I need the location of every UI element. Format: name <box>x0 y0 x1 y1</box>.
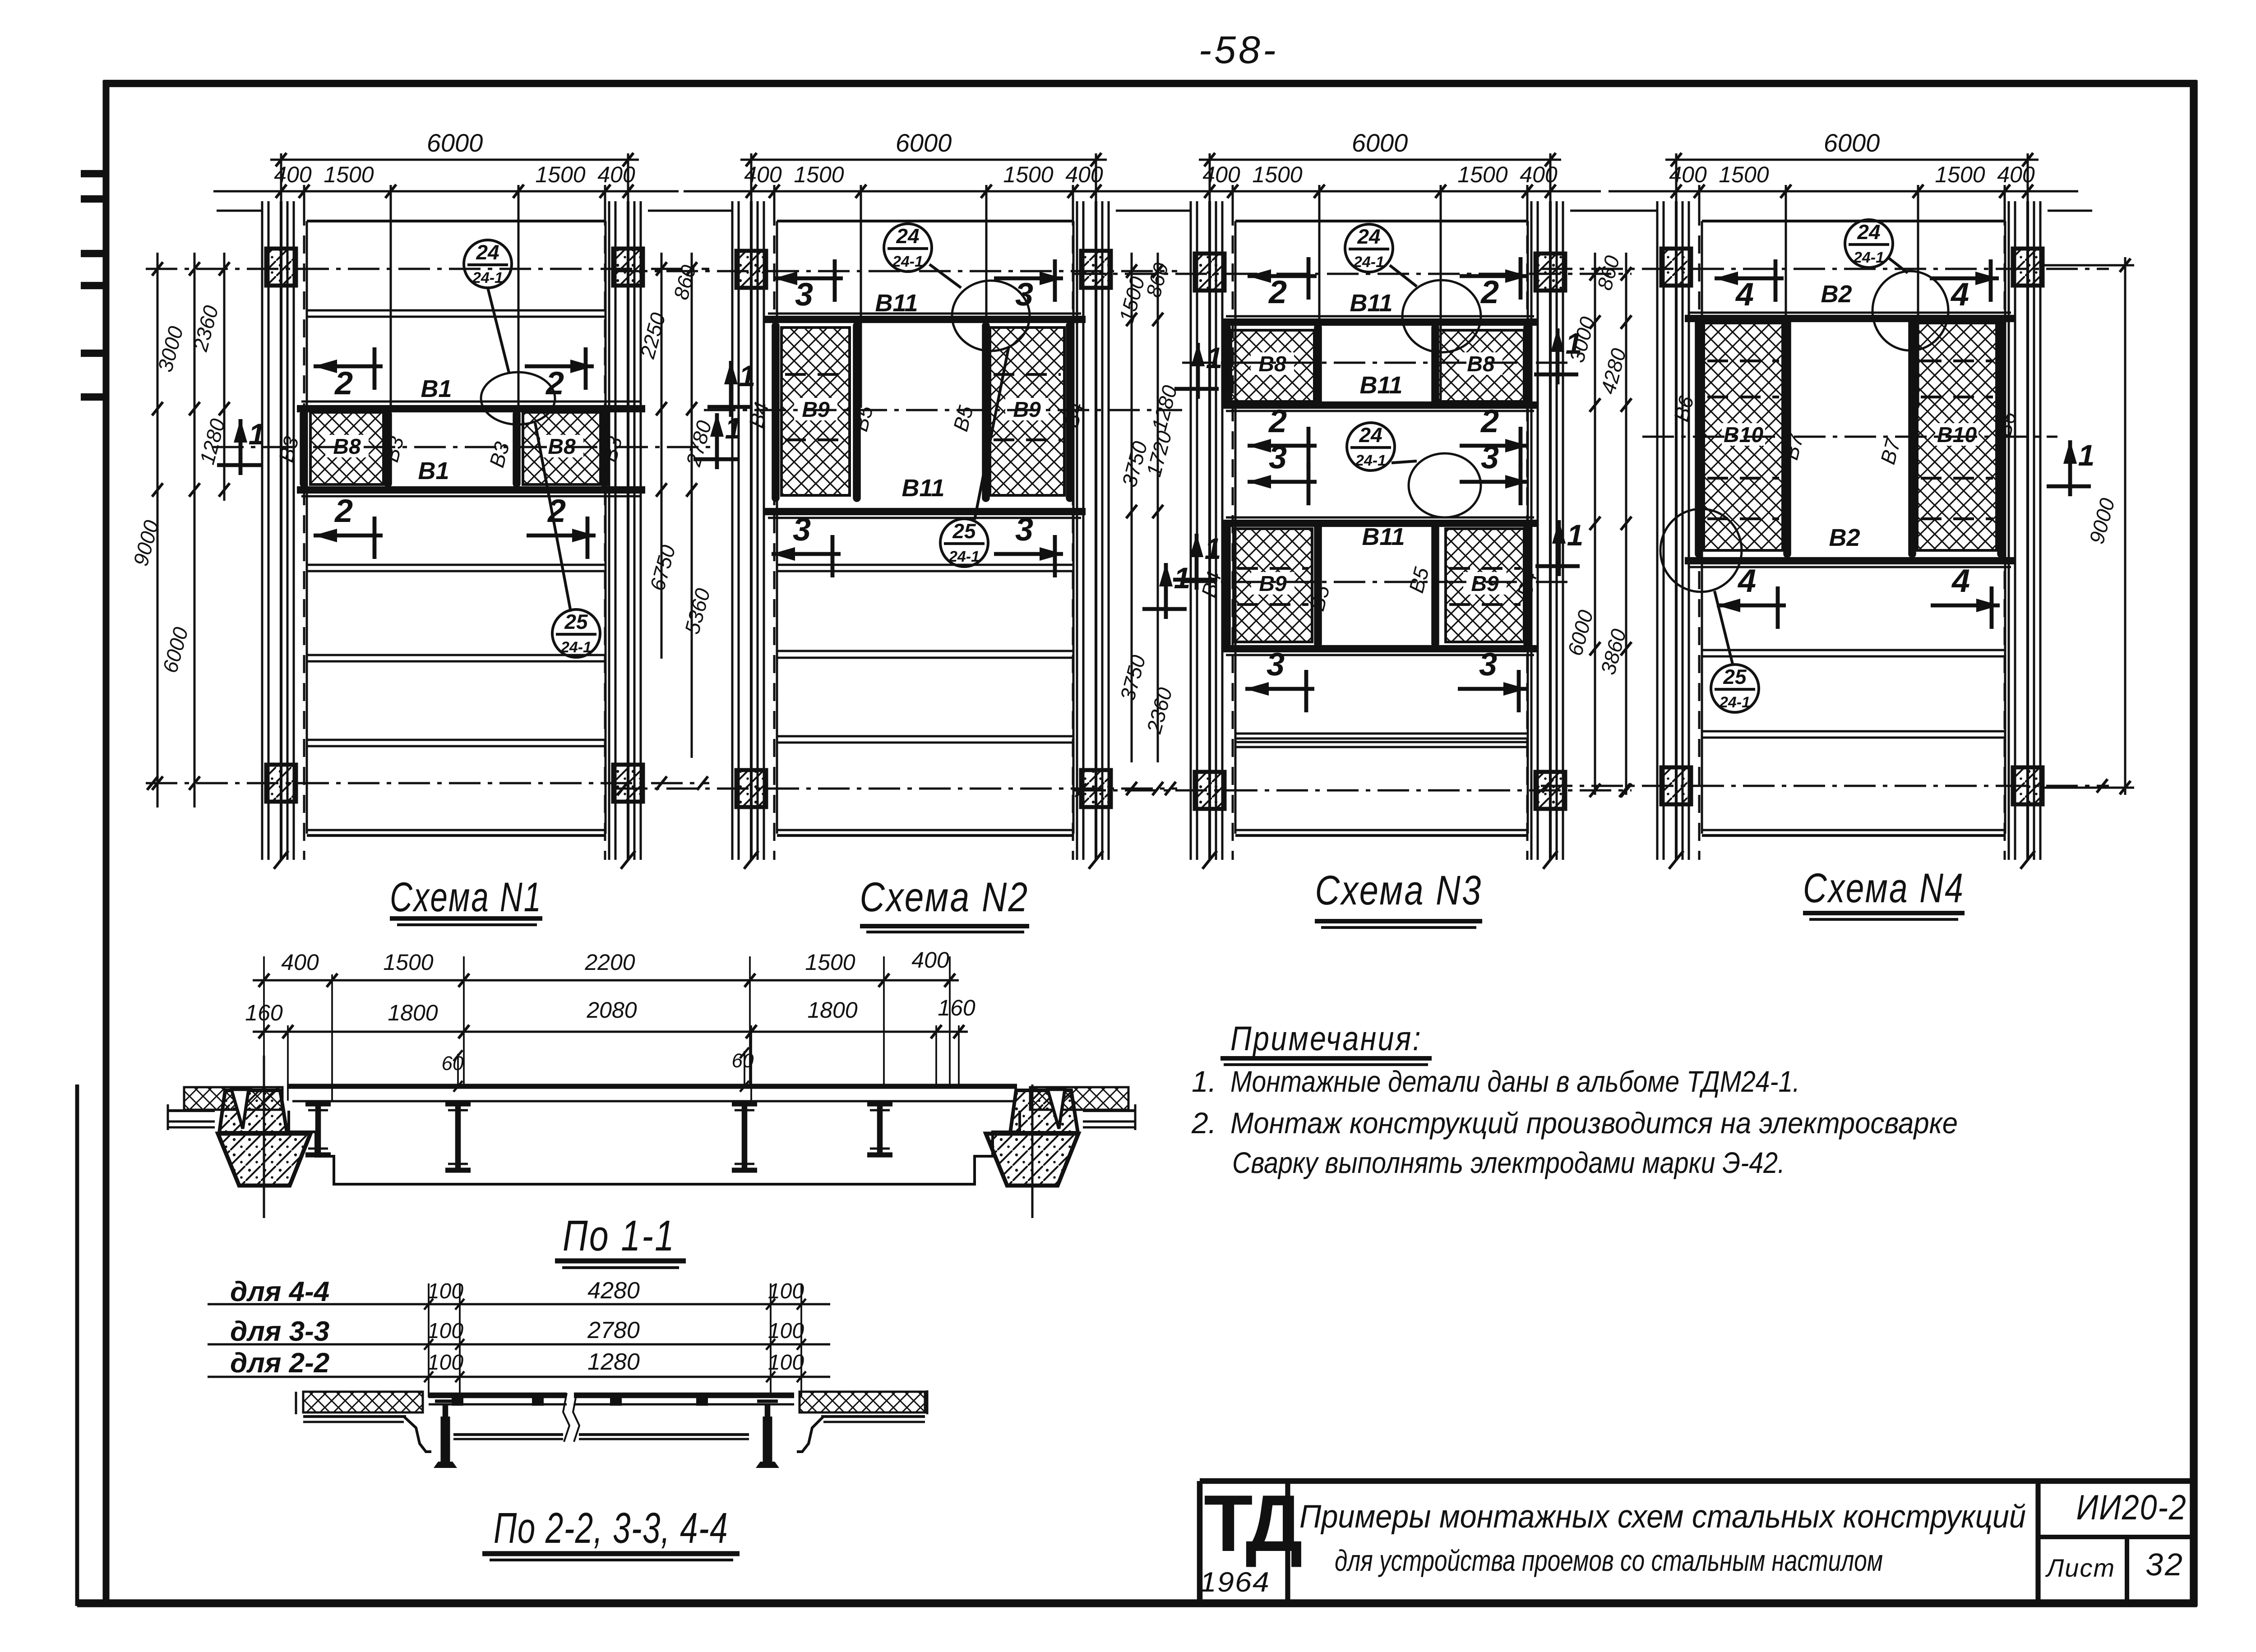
scheme N3: rail end ticks <box>1202 851 1217 869</box>
svg-text:400: 400 <box>1202 162 1240 187</box>
svg-text:B2: B2 <box>1829 524 1860 551</box>
svg-text:6000: 6000 <box>896 129 952 157</box>
scheme N1: bottom axis line <box>146 782 709 784</box>
svg-text:100: 100 <box>768 1351 804 1375</box>
scheme N1: edge beam bar <box>300 414 308 484</box>
svg-text:1500: 1500 <box>324 162 374 187</box>
svg-text:B11: B11 <box>901 475 944 502</box>
scheme N4: edge beam bar <box>1695 321 1703 554</box>
svg-text:для 3-3: для 3-3 <box>230 1316 329 1347</box>
svg-text:1: 1 <box>1206 341 1223 374</box>
svg-text:B11: B11 <box>1350 290 1392 317</box>
svg-text:1: 1 <box>1567 518 1584 552</box>
scheme N2: dimension extension lines <box>750 160 753 212</box>
section 2-2: left slab with insulation <box>303 1392 423 1412</box>
scheme N1: overall dimension line 6000 <box>270 159 639 161</box>
svg-text:1: 1 <box>739 359 756 392</box>
svg-text:1.: 1. <box>1192 1065 1216 1098</box>
svg-text:B11: B11 <box>1362 523 1405 550</box>
scheme N1: section mark 2 <box>527 534 596 538</box>
svg-text:400: 400 <box>744 162 782 187</box>
section 1-1: right wall axis line <box>1031 1084 1034 1218</box>
scheme N1: section mark 2 <box>314 534 383 538</box>
svg-text:для 2-2: для 2-2 <box>230 1347 329 1379</box>
scheme N3: sub dimension line 400-1500-1500-400 <box>1142 190 1601 193</box>
section 1-1: left anchor V <box>231 1089 249 1129</box>
scheme N3: left rail beams <box>1190 201 1192 860</box>
svg-text:4280: 4280 <box>587 1278 640 1304</box>
svg-text:B1: B1 <box>421 375 452 402</box>
svg-text:1500: 1500 <box>383 950 433 975</box>
scheme N1: section mark 2 <box>525 365 594 369</box>
scheme N2: edge beam bar <box>982 326 990 498</box>
scheme N3: infill panel B9 <box>1446 529 1524 642</box>
svg-text:25: 25 <box>952 519 976 543</box>
svg-text:3: 3 <box>1267 646 1285 683</box>
section 1-1: I-beam at 705 <box>305 1101 331 1106</box>
scheme N2: section mark 3 <box>994 277 1063 281</box>
scheme N4: section mark 1 <box>2068 440 2072 496</box>
scheme N3: infill panel B9 <box>1234 529 1312 642</box>
scheme N2: bottom axis line <box>616 788 1177 790</box>
scheme N1: rail end ticks <box>274 851 288 869</box>
svg-text:По 2-2, 3-3, 4-4: По 2-2, 3-3, 4-4 <box>494 1504 728 1552</box>
svg-text:По 1-1: По 1-1 <box>563 1212 675 1260</box>
scheme N3: slab bottom edge <box>1235 829 1528 831</box>
svg-text:ТД: ТД <box>1204 1478 1301 1568</box>
svg-text:B2: B2 <box>1821 281 1852 308</box>
svg-text:1: 1 <box>1205 532 1221 565</box>
scheme N4: sub dimension line 400-1500-1500-400 <box>1609 190 2078 193</box>
scheme N3: steel beam B11 <box>1221 520 1539 527</box>
scheme N4: bottom axis line <box>1541 785 2109 787</box>
svg-text:B1: B1 <box>418 457 449 485</box>
scheme N4: infill panel B10 <box>1917 323 1997 550</box>
svg-text:400: 400 <box>1065 162 1103 187</box>
svg-text:6000: 6000 <box>1824 129 1880 157</box>
svg-text:3: 3 <box>1269 439 1287 475</box>
section 2-2: right slab with insulation <box>800 1392 925 1412</box>
scheme N3: dimension extension lines <box>1209 160 1211 212</box>
svg-text:3: 3 <box>1015 277 1033 313</box>
scheme N3: section mark 1 <box>1557 520 1561 576</box>
scheme N4: bottom column blocks <box>1661 767 1691 804</box>
svg-text:2.: 2. <box>1191 1106 1216 1140</box>
scheme N3: edge beam bar <box>1314 526 1322 644</box>
scheme N4: rail end ticks <box>1669 851 1683 869</box>
scheme N2: infill panel B9 <box>781 328 850 495</box>
svg-text:1: 1 <box>249 417 265 451</box>
scheme N2: sub dimension line 400-1500-1500-400 <box>684 190 1146 193</box>
scheme N4: top axis line <box>1541 268 2109 270</box>
section 2-2: left slab soffit and bent edge <box>303 1415 406 1418</box>
scheme N2: detail flag 24/24-1 <box>884 224 932 272</box>
svg-text:Схема N2: Схема N2 <box>860 874 1029 920</box>
svg-text:24: 24 <box>1357 225 1380 248</box>
scheme N1: right rail beams <box>608 201 610 860</box>
svg-text:1500: 1500 <box>1457 162 1507 187</box>
svg-text:Примеры монтажных схем стальны: Примеры монтажных схем стальных конструк… <box>1299 1499 2026 1535</box>
svg-text:1500: 1500 <box>535 162 585 187</box>
scheme N1: sub dimension line 400-1500-1500-400 <box>213 190 679 193</box>
svg-text:-58-: -58- <box>1199 28 1279 72</box>
svg-text:B10: B10 <box>1724 423 1763 447</box>
svg-text:Лист: Лист <box>2045 1554 2115 1582</box>
scheme N4: section mark 4 <box>1931 604 2000 608</box>
svg-text:2: 2 <box>1480 274 1499 310</box>
svg-text:24: 24 <box>476 240 499 264</box>
section 2-2: suspended I-beams <box>443 1404 448 1462</box>
scheme N1: left rail beams <box>261 201 264 860</box>
scheme N4: section mark 4 <box>1930 277 1999 281</box>
scheme N2: slab strip joints <box>777 564 1073 566</box>
section 2-2: right slab soffit and bent edge <box>821 1415 925 1418</box>
scan edge line left <box>75 1084 79 1606</box>
scheme N1: left dimension lines <box>157 253 159 808</box>
svg-text:400: 400 <box>1997 162 2035 187</box>
scheme N2: bottom column blocks <box>736 770 766 807</box>
scheme N1: detail flag 24/24-1 <box>464 240 512 288</box>
scheme N3: edge beam bar <box>1223 328 1231 403</box>
scheme N2: top axis line <box>616 270 1177 272</box>
scheme N2: right dimension lines <box>1131 253 1133 762</box>
svg-text:1500: 1500 <box>1003 162 1053 187</box>
svg-text:400: 400 <box>597 162 635 187</box>
scheme N4: opening axis line <box>1642 436 2057 438</box>
scheme N3: infill panel B8 <box>1438 330 1524 401</box>
scheme N3: detail flag 24/24-1 upper <box>1345 224 1393 272</box>
svg-text:1500: 1500 <box>805 950 855 975</box>
scheme N4: top column blocks <box>1661 249 1691 286</box>
svg-text:для устройства проемов со стал: для устройства проемов со стальным насти… <box>1335 1544 1883 1577</box>
scheme N1: leader to detail region <box>488 288 509 373</box>
scheme N1: dimension extension lines <box>280 160 282 212</box>
svg-text:1800: 1800 <box>388 1000 438 1025</box>
section 1-1: right concrete footing <box>986 1134 1078 1186</box>
scheme N1: top axis line <box>146 268 709 270</box>
svg-text:B8: B8 <box>1467 352 1495 376</box>
scheme N2: overall dimension line 6000 <box>740 159 1107 161</box>
section 1-1: steel deck plate <box>287 1084 1017 1089</box>
scheme N3: section mark 2 <box>1460 274 1529 278</box>
scheme N2: edge beam bar <box>772 326 780 498</box>
scheme N1: edge beam bar <box>601 414 609 484</box>
scheme N2: infill panel B9 <box>990 328 1064 495</box>
scheme N4: slab bottom edge <box>1702 829 2005 831</box>
section 2-2: deck clips <box>452 1398 463 1406</box>
scheme N4: edge beam bar <box>1908 321 1916 554</box>
svg-text:24-1: 24-1 <box>1719 694 1750 711</box>
scheme N3: section mark 2 <box>1248 274 1317 278</box>
scheme N1: top column blocks <box>266 249 296 286</box>
svg-text:Примечания:: Примечания: <box>1230 1020 1422 1058</box>
scheme N1: steel beam B1 <box>297 405 645 412</box>
binding tick marks <box>81 170 104 177</box>
scheme N2: steel beam B11 <box>763 508 1086 515</box>
sheet border frame <box>103 80 110 1606</box>
section 1-1: right floor slab with insulation <box>1030 1087 1128 1110</box>
svg-text:Схема N4: Схема N4 <box>1803 865 1965 911</box>
svg-text:4: 4 <box>1950 277 1969 313</box>
svg-text:400: 400 <box>1669 162 1707 187</box>
dimension labels between N3 and N4 <box>1594 253 1596 795</box>
scheme N1: edge beam bar <box>384 414 392 484</box>
scheme N3: steel beam B11 <box>1221 318 1539 326</box>
section 1-1: I-beam at 1650 <box>732 1101 757 1106</box>
scheme N1: infill panel B8 <box>310 412 384 485</box>
svg-text:2780: 2780 <box>587 1317 640 1343</box>
scheme N3: infill panel B8 <box>1231 330 1314 401</box>
scheme N3: section mark 3 <box>1458 687 1527 691</box>
scheme N1: steel beam B1 <box>297 486 645 494</box>
scheme N3: section mark 3 <box>1460 480 1529 484</box>
scheme N4: steel beam B2 <box>1685 315 2016 322</box>
svg-text:4: 4 <box>1737 563 1756 599</box>
svg-text:B11: B11 <box>1359 372 1402 399</box>
svg-text:1500: 1500 <box>1935 162 1985 187</box>
scheme N2: rail end ticks <box>744 851 758 869</box>
svg-text:Схема N3: Схема N3 <box>1315 868 1483 914</box>
scheme N1: section mark 1 <box>715 413 719 469</box>
svg-text:1800: 1800 <box>807 997 857 1023</box>
svg-text:24-1: 24-1 <box>892 253 923 270</box>
scheme N3: bottom column blocks <box>1195 772 1225 809</box>
svg-text:Схема N1: Схема N1 <box>390 874 542 920</box>
scheme N3: edge beam bar <box>1431 328 1439 403</box>
svg-text:2: 2 <box>1268 403 1287 439</box>
scheme N4: section mark 4 <box>1715 277 1784 281</box>
svg-text:2: 2 <box>334 493 353 529</box>
scheme N2: section mark 3 <box>774 277 843 281</box>
section 2-2: soffit lines with break <box>453 1433 563 1436</box>
scheme N1: section mark 2 <box>314 365 383 369</box>
section 1-1: I-beam at 1950 <box>867 1101 892 1106</box>
section 1-1: dimension row 160-1800-2080-1800-160 <box>253 1031 968 1033</box>
scheme N3: edge beam bar <box>1314 328 1322 403</box>
svg-text:Монтажные детали даны в альбом: Монтажные детали даны в альбоме ТДМ24-1. <box>1230 1065 1800 1098</box>
section 1-1: dimension extension lines <box>263 956 265 1087</box>
svg-text:2: 2 <box>1268 274 1287 310</box>
svg-text:B9: B9 <box>1471 572 1499 596</box>
svg-text:60: 60 <box>442 1052 464 1075</box>
section 1-1: right concrete wall stub <box>1010 1090 1078 1133</box>
svg-text:24-1: 24-1 <box>1353 254 1384 271</box>
svg-text:100: 100 <box>427 1351 463 1375</box>
title block frame <box>1200 1478 2194 1484</box>
svg-text:24-1: 24-1 <box>1853 249 1884 266</box>
scheme N2: edge beam bar <box>853 326 861 498</box>
svg-text:400: 400 <box>281 950 319 975</box>
svg-text:ИИ20-2: ИИ20-2 <box>2076 1487 2187 1527</box>
svg-text:4: 4 <box>1735 277 1754 313</box>
svg-text:24-1: 24-1 <box>948 548 980 565</box>
svg-text:400: 400 <box>1520 162 1558 187</box>
svg-text:400: 400 <box>911 947 949 973</box>
svg-text:3: 3 <box>795 277 813 313</box>
svg-text:Монтаж конструкций производитс: Монтаж конструкций производится на элект… <box>1230 1106 1958 1140</box>
svg-text:B8: B8 <box>1258 352 1286 376</box>
svg-text:24: 24 <box>1857 220 1880 244</box>
section 1-1: left wall axis line <box>263 1056 265 1218</box>
section 1-1: dimension row 400-1500-2200-1500-400 <box>253 979 959 982</box>
section 2-2: steel deck plates <box>429 1393 567 1398</box>
svg-text:3: 3 <box>1481 439 1499 475</box>
scheme N4: slab strip joints <box>1702 649 2005 651</box>
scheme N2: edge beam bar <box>1066 326 1074 498</box>
scheme N4: steel beam B2 <box>1685 557 2016 564</box>
scheme N3: opening axis line row2 <box>1182 581 1575 583</box>
svg-text:24-1: 24-1 <box>472 269 503 286</box>
scheme N4: detail flag 24/24-1 <box>1845 220 1893 268</box>
scheme N4: overall dimension line 6000 <box>1665 159 2039 161</box>
scheme N1: detail flag 25/24-1 <box>552 609 600 657</box>
scheme N4: section mark 4 <box>1717 604 1786 608</box>
scheme N1: slab strip joints <box>307 309 606 312</box>
svg-text:160: 160 <box>938 995 975 1020</box>
svg-text:1500: 1500 <box>1252 162 1302 187</box>
svg-text:1964: 1964 <box>1200 1567 1270 1598</box>
svg-text:6000: 6000 <box>427 129 483 157</box>
svg-text:25: 25 <box>564 610 588 633</box>
svg-text:1500: 1500 <box>1719 162 1769 187</box>
svg-text:Сварку выполнять электродами м: Сварку выполнять электродами марки Э-42. <box>1232 1146 1785 1179</box>
scheme N2: right rail beams <box>1076 201 1078 860</box>
scheme N3: steel beam B11 <box>1221 645 1539 652</box>
scheme N2: slab bottom edge <box>777 829 1073 831</box>
scheme N1: section mark 1 <box>239 419 243 475</box>
scheme N3: section mark 1 <box>1196 343 1200 399</box>
scheme N2: section mark 3 <box>994 552 1063 556</box>
scheme N2: section mark 1 <box>1164 563 1168 619</box>
svg-text:2: 2 <box>334 365 353 401</box>
svg-text:3: 3 <box>793 512 811 548</box>
svg-text:25: 25 <box>1723 665 1747 688</box>
scheme N4: edge beam bar <box>1783 321 1791 554</box>
svg-text:B10: B10 <box>1937 423 1977 447</box>
scheme N2: top column blocks <box>736 251 766 288</box>
svg-text:6000: 6000 <box>1352 129 1408 157</box>
scheme N3: section mark 3 <box>1245 687 1314 691</box>
scheme N1: bottom column blocks <box>266 765 296 802</box>
scheme N2: opening axis line <box>704 409 1182 411</box>
svg-text:4: 4 <box>1951 563 1970 599</box>
scheme N3: slab plan outline <box>1235 220 1528 222</box>
scheme N2: left rail beams <box>731 201 734 860</box>
scheme N3: top column blocks <box>1195 254 1225 291</box>
svg-text:1500: 1500 <box>794 162 844 187</box>
scheme N4: slab plan outline <box>1702 220 2005 222</box>
scheme N3: right rail beams <box>1530 201 1533 860</box>
svg-text:60: 60 <box>732 1050 754 1072</box>
svg-text:24-1: 24-1 <box>1355 452 1386 469</box>
scheme N4: infill panel B10 <box>1704 323 1783 550</box>
scheme N3: detail flag 24/24-1 middle <box>1347 423 1395 471</box>
scheme N3: overall dimension line 6000 <box>1199 159 1561 161</box>
scheme N3: section mark 2 <box>1460 444 1529 448</box>
svg-text:24: 24 <box>1359 423 1382 447</box>
scheme N3: edge beam bar <box>1523 526 1531 644</box>
scheme N4: left rail beams <box>1656 201 1659 860</box>
scheme N1: infill panel B8 <box>523 412 601 485</box>
svg-text:1280: 1280 <box>587 1349 640 1375</box>
svg-text:3: 3 <box>1479 646 1497 683</box>
svg-text:24-1: 24-1 <box>560 639 592 656</box>
section 1-1: trough soffit outline <box>289 1111 1020 1184</box>
scheme N3: slab strip joints <box>1235 733 1528 735</box>
scheme N3: section mark 2 <box>1248 444 1317 448</box>
svg-text:для 4-4: для 4-4 <box>230 1276 329 1307</box>
section 2-2: dimension verticals <box>428 1283 430 1398</box>
svg-text:24: 24 <box>896 224 919 248</box>
scheme N2: detail flag 25/24-1 <box>975 348 1008 520</box>
svg-text:32: 32 <box>2145 1547 2184 1582</box>
svg-text:2: 2 <box>1480 403 1499 439</box>
scheme N2: section mark 1 <box>729 361 733 417</box>
scheme N3: steel beam B11 <box>1221 401 1539 409</box>
svg-text:B9: B9 <box>1259 572 1287 596</box>
scheme N3: edge beam bar <box>1223 526 1231 644</box>
scheme N1: opening axis line <box>212 446 713 448</box>
svg-text:400: 400 <box>274 162 312 187</box>
section 1-1: left concrete footing <box>218 1134 310 1186</box>
svg-text:3: 3 <box>1015 512 1033 548</box>
scheme N3: top axis line <box>1074 273 1632 275</box>
scheme N1: slab plan outline <box>307 220 606 222</box>
svg-text:1: 1 <box>2078 438 2095 472</box>
section 1-1: I-beam at 1015 <box>445 1101 471 1106</box>
scheme N3: edge beam bar <box>1523 328 1531 403</box>
scheme N3: section mark 1 <box>1556 328 1560 384</box>
section 1-1: left floor slab with insulation <box>184 1087 282 1110</box>
scheme N2: steel beam B11 <box>763 316 1086 323</box>
scheme N2: section mark 3 <box>772 552 841 556</box>
section 1-1: right anchor V <box>1048 1089 1065 1129</box>
scheme N2: slab plan outline <box>777 220 1073 222</box>
scheme N4: right dimension line 9000 <box>2124 257 2127 795</box>
scheme N4: detail flag 25/24-1 <box>1660 509 1742 592</box>
scheme N1: slab bottom edge <box>307 829 606 831</box>
scheme N4: edge beam bar <box>1997 321 2005 554</box>
scheme N3: bottom axis line <box>1074 789 1632 792</box>
scheme N4: right rail beams <box>2008 201 2010 860</box>
scheme N3: section mark 1 <box>1195 534 1199 590</box>
svg-text:2200: 2200 <box>584 950 635 975</box>
section 1-1: left concrete wall stub <box>219 1090 287 1133</box>
scheme N3: section mark 3 <box>1248 480 1317 484</box>
scheme N4: dimension extension lines <box>1675 160 1678 212</box>
scheme N1: right dimension lines <box>661 253 663 659</box>
scheme N3: opening axis line row1 <box>1182 362 1575 364</box>
scheme N1: edge beam bar <box>513 414 521 484</box>
svg-text:2080: 2080 <box>586 997 637 1023</box>
scheme N3: edge beam bar <box>1431 526 1439 644</box>
